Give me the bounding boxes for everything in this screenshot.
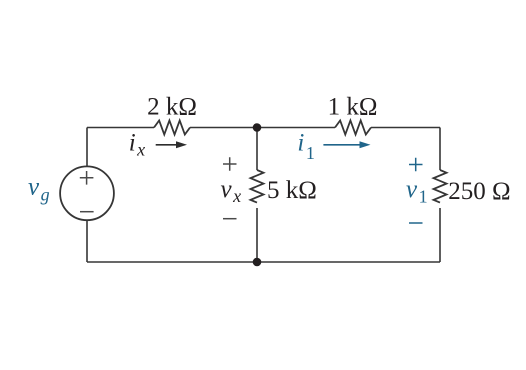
wire middle branch lower	[256, 208, 258, 262]
svg-text:v1: v1	[406, 176, 428, 207]
wire right branch upper	[439, 128, 441, 171]
node b junction dot bottom	[253, 258, 262, 267]
wire right branch lower	[439, 208, 441, 262]
svg-text:ix: ix	[129, 130, 145, 160]
wire left branch upper	[86, 128, 88, 167]
wire top-left segment	[87, 127, 154, 129]
svg-text:i1: i1	[297, 130, 314, 164]
wire top-right segment	[371, 127, 440, 129]
current arrow i1	[323, 141, 370, 148]
source minus terminal	[80, 211, 94, 213]
resistor R4 250 Ohm zigzag	[434, 170, 447, 203]
wire left branch lower	[86, 220, 88, 262]
wire top-middle segment	[190, 127, 335, 129]
resistor R2 1 kOhm zigzag	[335, 121, 371, 135]
resistor R3 5 kOhm zigzag	[251, 170, 264, 203]
node a junction dot top	[253, 123, 262, 132]
label vx plus	[223, 157, 237, 171]
svg-text:1 kΩ: 1 kΩ	[328, 94, 378, 121]
svg-text:vx: vx	[221, 176, 242, 206]
svg-text:5 kΩ: 5 kΩ	[267, 177, 317, 204]
svg-text:250 Ω: 250 Ω	[448, 178, 510, 205]
source plus terminal	[80, 171, 94, 185]
current arrow ix	[156, 141, 187, 148]
voltage source vg circle	[60, 166, 114, 220]
wire bottom	[87, 261, 440, 263]
label v1 plus	[409, 158, 423, 172]
svg-text:vg: vg	[28, 174, 50, 205]
label vx minus	[223, 218, 237, 220]
resistor R1 2 kOhm zigzag	[154, 121, 190, 135]
wire middle branch upper	[256, 128, 258, 171]
label v1 minus	[409, 222, 423, 224]
svg-text:2 kΩ: 2 kΩ	[147, 94, 197, 121]
